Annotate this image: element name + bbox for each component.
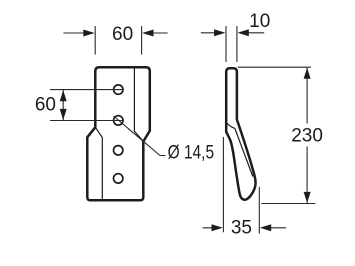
svg-text:60: 60 [112, 24, 133, 45]
svg-text:Ø 14,5: Ø 14,5 [168, 142, 215, 163]
svg-text:60: 60 [35, 94, 56, 115]
svg-text:35: 35 [231, 218, 252, 239]
svg-text:230: 230 [291, 126, 323, 147]
svg-text:10: 10 [249, 11, 270, 32]
